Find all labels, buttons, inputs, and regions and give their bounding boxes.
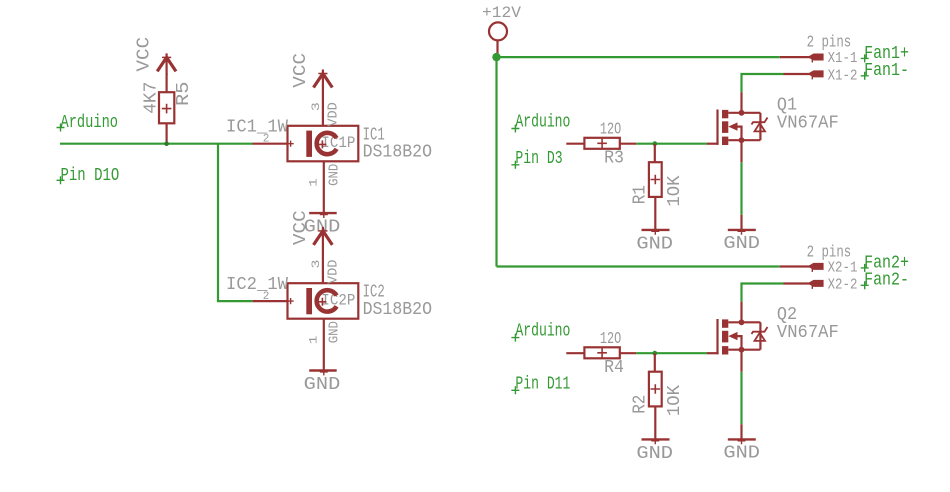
resistor R4 — [566, 347, 636, 358]
svg-text:3: 3 — [311, 260, 323, 269]
connector X2-1 — [780, 260, 858, 277]
svg-text:1: 1 — [308, 178, 320, 187]
svg-text:VCC: VCC — [291, 53, 311, 88]
source link — [728, 139, 760, 141]
svg-text:3: 3 — [311, 102, 323, 111]
resistor R2 — [649, 353, 662, 439]
svg-text:X1-2: X1-2 — [828, 67, 858, 84]
connector X1-2 — [784, 67, 858, 84]
wire trunk to X2-1 — [497, 265, 780, 267]
resistor R5 — [159, 74, 174, 144]
label Pin D11 — [511, 375, 570, 395]
channel bars — [722, 319, 728, 327]
svg-text:VDD: VDD — [327, 260, 342, 284]
svg-text:VN67AF: VN67AF — [777, 323, 839, 343]
ground GND (R2) — [636, 436, 673, 464]
wire branch horizontal to IC2 pin — [217, 300, 253, 302]
pin 2 DQ (IC2) — [253, 291, 294, 304]
svg-text:2 pins: 2 pins — [807, 33, 852, 52]
wire +12V trunk down — [495, 57, 497, 266]
svg-text:R5: R5 — [174, 82, 194, 107]
svg-text:1OK: 1OK — [665, 175, 685, 206]
pin 3 VDD (IC2) — [311, 231, 342, 284]
svg-text:12O: 12O — [600, 329, 621, 348]
wire Q1 source to GND — [740, 162, 742, 214]
supply +12V — [482, 4, 522, 57]
svg-text:IC1_1W: IC1_1W — [226, 118, 288, 138]
supply VCC (IC1) — [291, 53, 333, 88]
svg-text:X1-1: X1-1 — [828, 50, 858, 67]
svg-text:VDD: VDD — [327, 102, 342, 126]
drain link — [728, 321, 760, 323]
svg-text:VCC: VCC — [134, 37, 154, 72]
junction R2 tap — [652, 351, 657, 356]
svg-text:R3: R3 — [604, 149, 624, 169]
transistor Q2 VN67AF — [707, 302, 768, 372]
pin 1 GND (IC2) — [308, 319, 342, 371]
channel bars — [722, 110, 728, 118]
gate lead — [707, 143, 719, 145]
svg-text:R1: R1 — [630, 185, 650, 204]
svg-text:12O: 12O — [600, 120, 621, 139]
svg-text:VCC: VCC — [291, 210, 311, 245]
svg-text:Arduino: Arduino — [515, 321, 570, 341]
svg-text:X2-1: X2-1 — [828, 260, 858, 277]
wire R3 to Q1 gate — [636, 143, 707, 145]
ground GND (R1) — [636, 226, 673, 254]
ground GND (IC2) — [304, 367, 341, 395]
svg-text:1OK: 1OK — [665, 385, 685, 416]
svg-text:Pin D1O: Pin D1O — [61, 166, 120, 186]
op IC1 body — [288, 126, 359, 162]
svg-text:Arduino: Arduino — [515, 112, 570, 132]
wire R4 to Q2 gate — [636, 352, 707, 354]
svg-text:DS18B2O: DS18B2O — [363, 143, 432, 163]
svg-text:VN67AF: VN67AF — [777, 113, 839, 133]
body arrow — [728, 122, 737, 130]
svg-text:DS18B2O: DS18B2O — [363, 300, 432, 320]
svg-text:GND: GND — [304, 375, 341, 395]
ground GND (IC1) — [304, 210, 341, 238]
pin 3 VDD (IC1) — [311, 74, 342, 127]
pin Q1 source gnd stub — [740, 215, 742, 230]
svg-text:GND: GND — [723, 444, 760, 464]
label Fan1- — [861, 60, 909, 81]
label Arduino (left) — [57, 113, 119, 133]
label Arduino (D3) — [511, 112, 570, 132]
wire Arduino D10 net horizontal — [60, 143, 253, 145]
svg-text:GND: GND — [328, 321, 343, 343]
op IC2 body — [288, 283, 359, 319]
svg-text:2 pins: 2 pins — [807, 243, 852, 262]
svg-text:Pin D11: Pin D11 — [515, 375, 570, 395]
body arrow — [728, 332, 737, 340]
drain link — [728, 112, 760, 114]
svg-text:R4: R4 — [604, 358, 624, 378]
label Fan2+ — [861, 252, 909, 273]
svg-text:X2-2: X2-2 — [828, 277, 858, 294]
resistor R1 — [649, 144, 662, 230]
svg-text:Fan2-: Fan2- — [864, 270, 909, 291]
label Fan2- — [861, 270, 909, 291]
label Pin D3 — [511, 149, 562, 169]
junction R1 tap — [652, 141, 657, 146]
gate lead — [707, 352, 719, 354]
svg-text:GND: GND — [636, 444, 673, 464]
svg-text:Fan1-: Fan1- — [864, 60, 909, 81]
pin 2 DQ (IC1) — [253, 134, 294, 147]
transistor Q1 VN67AF — [707, 92, 768, 162]
pin 1 GND (IC1) — [308, 161, 342, 213]
label Fan1+ — [861, 43, 909, 64]
supply VCC (R5) — [134, 37, 176, 75]
connector X2-2 — [784, 277, 858, 294]
supply VCC (IC2) — [291, 210, 333, 245]
svg-text:GND: GND — [328, 164, 343, 186]
ground GND (Q2) — [723, 436, 760, 464]
pin Q2 source gnd stub — [740, 424, 742, 439]
svg-text:+12V: +12V — [482, 4, 522, 22]
label Arduino (D11) — [511, 321, 570, 341]
svg-text:4K7: 4K7 — [142, 82, 162, 114]
source link — [728, 349, 760, 351]
svg-text:R2: R2 — [630, 395, 650, 414]
junction +12V node — [492, 53, 500, 61]
svg-text:IC2_1W: IC2_1W — [226, 275, 288, 295]
label Pin D10 — [57, 166, 120, 186]
svg-text:Pin D3: Pin D3 — [515, 149, 562, 169]
resistor R3 — [566, 138, 636, 149]
wire X2-2 to Q2 drain — [742, 284, 784, 302]
svg-text:1: 1 — [308, 335, 320, 344]
junction R5/net — [164, 141, 169, 146]
wire branch vertical to IC2 — [217, 144, 219, 301]
wire X1-2 to Q1 drain — [742, 74, 784, 92]
svg-text:Arduino: Arduino — [61, 113, 119, 133]
body diode — [759, 322, 761, 349]
wire +12V to X1-1 — [497, 56, 780, 58]
svg-text:GND: GND — [636, 234, 673, 254]
connector X1-1 — [780, 50, 858, 67]
body diode — [759, 113, 761, 140]
ground GND (Q1) — [723, 226, 760, 254]
svg-text:GND: GND — [723, 234, 760, 254]
wire Q2 source to GND — [740, 372, 742, 424]
